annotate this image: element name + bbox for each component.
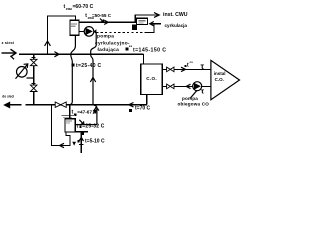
pointer arrow onto stage1 outlet line (79, 120, 84, 125)
svg-text:pompa: pompa (97, 35, 114, 40)
black marker under filter box (132, 24, 137, 30)
svg-text:t=25-40 C: t=25-40 C (76, 63, 102, 69)
wire CO return drop to return line (146, 95, 148, 105)
valve on CO supply (167, 67, 174, 72)
svg-text:obiegowa CO: obiegowa CO (178, 101, 210, 106)
triangle inst CO (211, 60, 240, 99)
node z-sieci supply inlet arrow (2, 49, 17, 57)
valve on CO return (167, 84, 174, 89)
filter box on circulation (137, 18, 148, 24)
svg-text:t: t (72, 109, 74, 115)
svg-text:τ: τ (201, 87, 205, 96)
svg-text:inst. CWU: inst. CWU (163, 12, 188, 18)
svg-text:=60-70 C: =60-70 C (73, 4, 94, 10)
wire riser to stage2 exchanger (48, 16, 76, 54)
sensor flag near stage1 (72, 142, 76, 146)
wire pressure regulator branch (33, 54, 35, 104)
node cyrkulacja return arrow (151, 23, 162, 25)
stage1 riser flow arrow up (94, 107, 99, 111)
svg-text:co: co (190, 60, 194, 64)
wire inst CWU arrowhead (154, 13, 159, 18)
svg-text:ładująca: ładująca (98, 47, 120, 53)
svg-text:τ: τ (201, 62, 205, 71)
node do-sieci outlet arrow (3, 102, 10, 109)
wire riser flow arrow up (45, 41, 51, 46)
wire return flow arrow left (129, 103, 134, 107)
svg-text:t=5-10 C: t=5-10 C (85, 139, 105, 145)
label pointer arrow to return junction (93, 110, 96, 113)
pump P1 circulation-loading pump (84, 27, 96, 37)
svg-text:cyrkulacyjno-: cyrkulacyjno- (95, 41, 130, 47)
wire supply flow arrow (54, 52, 59, 57)
valve V2 on branch (32, 82, 36, 84)
drain flow arrowhead left (60, 143, 64, 147)
wire mixing vertical with merge curve (91, 32, 97, 104)
wire CO supply pipe to installation (162, 68, 210, 70)
sensor t with co (185, 65, 187, 67)
label pointer arrow to CWU line (100, 19, 104, 23)
wire CO return pipe (162, 85, 210, 87)
wire stage2 primary outlet down S-bend (69, 35, 75, 104)
wire stage1 right-bottom port (75, 131, 88, 133)
svg-text:=25-32 C: =25-32 C (82, 124, 104, 130)
regulator with arrow (16, 64, 34, 79)
svg-text:cyrkulacja: cyrkulacja (165, 23, 188, 28)
heat exchanger CO box (141, 64, 163, 95)
svg-text:cwu: cwu (66, 7, 72, 11)
svg-text:C.O.: C.O. (215, 77, 224, 82)
wire supply main line (19, 53, 144, 55)
cold water check tick (79, 143, 83, 145)
label t=145-150 C (125, 47, 128, 50)
valve on return line (55, 102, 66, 107)
wire CO return flow arrow left (186, 84, 190, 88)
wire return main line (8, 104, 22, 106)
svg-text:t=70 C: t=70 C (135, 106, 151, 112)
wire CO supply drop (143, 54, 145, 64)
cold water flow arrow up (79, 137, 83, 141)
svg-text:=50-55 C: =50-55 C (92, 13, 112, 18)
svg-text:t=145-150 C: t=145-150 C (133, 48, 166, 54)
wire circulation dashed line to pump (97, 31, 147, 33)
svg-text:z sieci: z sieci (2, 40, 15, 45)
label t=70 C (129, 109, 132, 112)
svg-text:instal: instal (214, 71, 226, 76)
label t=25-40 C (72, 64, 75, 67)
label pointer to pump P2 (190, 91, 197, 99)
pump P2 CO circulation pump (193, 82, 202, 91)
wire CO supply flow arrow (181, 67, 186, 71)
wire stage1 outlet riser to return (75, 105, 97, 124)
wire stage1 drain U back to return (51, 105, 70, 146)
heat exchanger stage I box (65, 119, 75, 132)
heat exchanger stage II box (70, 20, 79, 35)
flow arrow on CWU line (104, 20, 108, 24)
wire cold water inlet vertical (80, 132, 82, 153)
junction marker on cold water line (80, 132, 84, 135)
wire mixing flow arrow up (90, 77, 95, 82)
valve V1 on branch (32, 56, 36, 58)
wire circulation tee down (147, 24, 154, 33)
wire stage1 top riser (69, 105, 71, 119)
wire pump to exchanger stub (79, 30, 84, 32)
svg-text:do sieci: do sieci (2, 95, 14, 99)
svg-text:C.O.: C.O. (146, 76, 157, 81)
wire CWU outlet to inst CWU (79, 15, 159, 22)
impulse line fragment (11, 56, 15, 60)
